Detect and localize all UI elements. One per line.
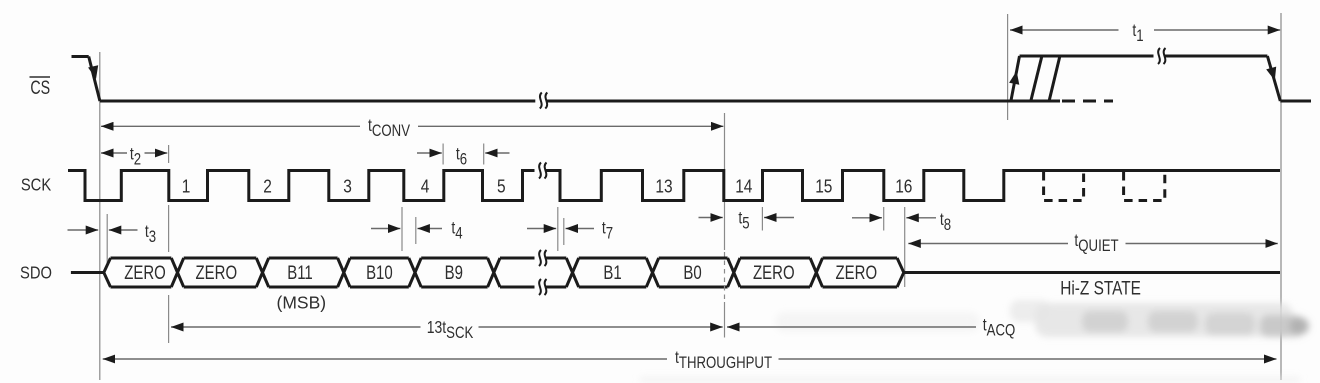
svg-text:B11: B11 — [287, 261, 313, 283]
svg-text:Hi-Z STATE: Hi-Z STATE — [1060, 277, 1141, 299]
break symbol on SDO cell top edge — [535, 250, 547, 266]
svg-text:ZERO: ZERO — [753, 261, 795, 283]
SCK dashed pulse 1 — [1044, 172, 1084, 201]
svg-text:1: 1 — [182, 176, 191, 196]
tCONV dimension left — [101, 125, 360, 127]
ref line: SDO Hi-Z start / tQUIET start — [904, 207, 906, 287]
ref line dashed across SDO cells — [724, 252, 726, 302]
svg-text:4: 4 — [421, 176, 430, 196]
faint watermark smudge — [640, 300, 1309, 382]
svg-text:SDO: SDO — [20, 263, 52, 283]
SCK waveform — [68, 171, 1280, 201]
SDO data bus cells — [104, 258, 904, 287]
ref tick: t5 right (SCK rise 15) — [761, 207, 763, 231]
t8 dimension left arrow — [852, 217, 882, 219]
13tSCK dimension right — [479, 326, 723, 328]
ref line: SCK fall for t4 — [401, 207, 403, 251]
svg-text:14: 14 — [735, 176, 752, 196]
t2 dimension right arrow — [145, 152, 168, 154]
break symbol on CS high — [1154, 48, 1166, 64]
svg-text:2: 2 — [263, 176, 272, 196]
t8 dimension right arrow — [906, 217, 936, 219]
ref line: tCONV end (lower, to tACQ) — [724, 302, 726, 338]
svg-text:5: 5 — [497, 176, 506, 196]
CS low level wire — [100, 100, 1060, 103]
ref line: CS rise / t1 start — [1007, 14, 1009, 120]
SDO first cell left point — [104, 258, 111, 287]
ref line: tCONV end / SCK fall 14 (upper) — [724, 113, 726, 250]
tCONV dimension right — [418, 125, 723, 127]
CS falling-edge arrowhead — [88, 65, 98, 79]
ref tick: 13tSCK start — [168, 295, 170, 343]
svg-text:13: 13 — [655, 176, 672, 196]
t1 dimension left — [1010, 29, 1119, 31]
ref line: CS falling edge / tCONV-tTHROUGHPUT start — [99, 52, 101, 380]
CS high level wire — [1020, 55, 1268, 58]
t7 dimension left arrow — [527, 228, 556, 230]
svg-text:ZERO: ZERO — [836, 261, 878, 283]
t6 dimension right arrow — [485, 152, 509, 154]
SCK dashed pulse 2 — [1124, 172, 1165, 201]
t4 dimension left arrow — [371, 228, 400, 230]
break symbol on SDO cell bottom edge — [535, 279, 547, 295]
SDO cell X transitions — [171, 258, 822, 287]
t5 dimension left arrow — [699, 217, 723, 219]
ref line: right edge / t1-tQUIET-tTHROUGHPUT end — [1280, 13, 1282, 380]
ref tick: t3 end / SCK rise 1 — [168, 205, 170, 252]
tQUIET dimension right — [1126, 243, 1278, 245]
CS rising edge slash 1 — [1011, 56, 1020, 101]
CS falling edge — [89, 57, 100, 102]
ref tick: t4 right (SDO B9 transition) — [415, 217, 417, 244]
svg-text:CS: CS — [30, 77, 50, 99]
ref tick: t7 right — [563, 218, 565, 245]
CS signal label — [30, 77, 51, 99]
t4 dimension right arrow — [417, 228, 442, 230]
t3 dimension right arrow — [109, 229, 138, 231]
SDO cell top/bottom edges — [111, 258, 898, 287]
ref tick: t2 end upper — [168, 145, 170, 163]
svg-text:SCK: SCK — [21, 175, 51, 195]
tTHROUGHPUT dimension right — [779, 358, 1277, 360]
CS rising edge slash 2 — [1031, 56, 1042, 101]
svg-text:16: 16 — [895, 176, 912, 196]
ref line: SCK fall for t7 — [557, 207, 559, 251]
t3 dimension left arrow — [68, 229, 99, 231]
SDO Hi-Z wire — [904, 271, 1280, 274]
CS low wire right end — [1280, 100, 1311, 103]
break symbol on CS low — [535, 93, 547, 109]
t5 dimension right arrow — [764, 217, 794, 219]
ref tick: t3 right (SDO start) — [106, 214, 108, 264]
CS rising edge slash 3 — [1049, 56, 1060, 101]
ref tick: t6 right (SCK fall 5) — [483, 144, 485, 165]
svg-text:B0: B0 — [683, 261, 701, 283]
SDO lead-in wire — [71, 271, 105, 274]
svg-text:B9: B9 — [445, 261, 463, 283]
t2 dimension left arrow — [101, 152, 127, 154]
t6 dimension left arrow — [417, 152, 442, 154]
svg-text:3: 3 — [343, 176, 352, 196]
CS right falling-edge arrowhead — [1266, 67, 1276, 81]
tQUIET dimension left — [908, 243, 1068, 245]
svg-text:B1: B1 — [603, 261, 621, 283]
t7 dimension right arrow — [566, 228, 595, 230]
CS falling edge right — [1267, 56, 1280, 101]
13tSCK dimension left — [171, 326, 421, 328]
svg-text:ZERO: ZERO — [196, 261, 238, 283]
svg-text:15: 15 — [815, 176, 832, 196]
tACQ dimension left — [727, 326, 976, 328]
SDO last cell right point — [897, 258, 904, 287]
t1 dimension right — [1154, 29, 1280, 31]
tTHROUGHPUT dimension left — [103, 358, 667, 360]
svg-text:(MSB): (MSB) — [277, 293, 327, 313]
svg-text:B10: B10 — [366, 261, 393, 283]
svg-text:ZERO: ZERO — [124, 261, 166, 283]
CS low dashed continuation — [1062, 100, 1113, 103]
CS initial high segment — [72, 55, 89, 58]
break symbol on SCK high — [535, 163, 547, 179]
ref tick: t6 left (SCK rise 5) — [442, 144, 444, 165]
ref tick: t8 left (SCK fall 16) — [883, 207, 885, 231]
CS rising-edge arrowhead — [1009, 71, 1019, 85]
